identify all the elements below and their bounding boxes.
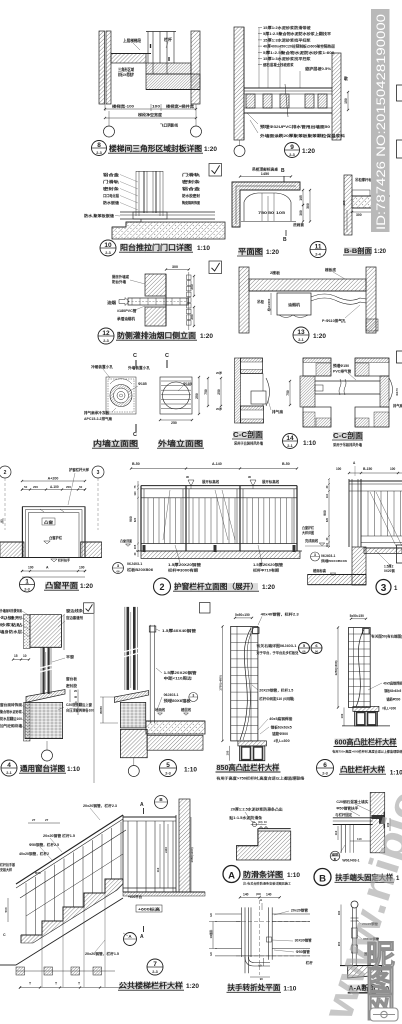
svg-text:冷暖装置小孔: 冷暖装置小孔 (91, 364, 114, 369)
svg-text:620: 620 (133, 517, 137, 522)
svg-text:C: C (133, 432, 137, 438)
svg-text:200: 200 (33, 485, 38, 489)
svg-text:Φ185: Φ185 (183, 382, 192, 386)
svg-text:Φ50钢管，栏杆2.5: Φ50钢管，栏杆2.5 (29, 842, 59, 847)
svg-text:吊柜: 吊柜 (257, 299, 265, 304)
svg-text:B-B剖面: B-B剖面 (344, 246, 372, 255)
svg-text:凸窗顶面: 凸窗顶面 (120, 538, 132, 543)
svg-text:2-1: 2-1 (287, 444, 293, 448)
svg-text:预埋B0X0B0X6: 预埋B0X0B0X6 (321, 558, 347, 563)
svg-text:10: 10 (104, 242, 112, 249)
svg-text:140: 140 (243, 893, 249, 897)
svg-text:1.5厚20X20钢管: 1.5厚20X20钢管 (164, 670, 198, 675)
svg-text:三角形区域: 三角形区域 (118, 67, 134, 72)
svg-text:7: 7 (153, 961, 157, 968)
svg-text:20厚: 20厚 (216, 407, 222, 411)
svg-text:110: 110 (326, 493, 329, 498)
watermark grey strip (371, 9, 390, 232)
panel 12 oil fume outlet side elevation (209, 261, 222, 274)
svg-text:B-50: B-50 (282, 462, 290, 466)
svg-text:A+200: A+200 (48, 477, 59, 481)
svg-text:阳台推拉门门口详图: 阳台推拉门门口详图 (120, 242, 193, 252)
svg-text:2楼板: 2楼板 (270, 270, 281, 275)
svg-text:2-3: 2-3 (152, 970, 158, 974)
panel 600 belly railing (349, 628, 371, 708)
svg-text:50: 50 (268, 211, 274, 215)
svg-text:中距<110周边: 中距<110周边 (164, 676, 193, 681)
svg-text:≥110: ≥110 (164, 847, 168, 853)
svg-text:3: 3 (381, 583, 387, 594)
svg-text:11: 11 (315, 243, 322, 250)
svg-text:6: 6 (323, 762, 327, 769)
panel B handrail end fixing (370, 792, 385, 852)
svg-text:预埋Φ150: 预埋Φ150 (333, 363, 349, 368)
svg-text:2-3: 2-3 (289, 153, 295, 157)
svg-text:栏杆Φ710有期: 栏杆Φ710有期 (253, 568, 280, 573)
svg-text:1:20: 1:20 (200, 333, 213, 340)
svg-text:3: 3 (314, 553, 316, 557)
svg-text:100: 100 (340, 713, 344, 718)
svg-text:1:20: 1:20 (313, 333, 326, 340)
svg-text:栏杆中间距110 (0间隔): 栏杆中间距110 (0间隔) (259, 696, 294, 701)
svg-text:3: 3 (192, 693, 194, 697)
svg-text:楼面标高: 楼面标高 (313, 568, 327, 573)
svg-text:APC15-2-2排气扇: APC15-2-2排气扇 (84, 416, 113, 421)
svg-text:铝合金: 铝合金 (103, 172, 119, 177)
svg-text:9: 9 (290, 144, 294, 151)
svg-text:110: 110 (326, 542, 329, 547)
svg-text:1:10: 1:10 (184, 767, 197, 774)
svg-text:防滑条详图: 防滑条详图 (243, 870, 283, 879)
svg-text:PVC排气管: PVC排气管 (333, 369, 352, 374)
svg-text:通用窗台详图: 通用窗台详图 (20, 763, 65, 773)
svg-text:柜H≈2200: 柜H≈2200 (267, 298, 271, 312)
svg-text:5x50=150: 5x50=150 (350, 614, 364, 618)
svg-text:采用于且装排风外墙: 采用于且装排风外墙 (233, 441, 264, 446)
panel 13 hood section (239, 267, 249, 333)
right edge callout boxes (397, 85, 402, 101)
svg-text:厨房外墙或: 厨房外墙或 (112, 274, 129, 279)
svg-text:护窗栏杆大样: 护窗栏杆大样 (69, 467, 89, 472)
svg-text:Φ50钢管扶手: Φ50钢管扶手 (336, 806, 359, 811)
panel 3 railing at corner (349, 472, 402, 474)
svg-text:对于平台，于平台走步栏板处: 对于平台，于平台走步栏板处 (256, 650, 299, 655)
svg-text:地面线: 地面线 (155, 707, 166, 712)
svg-text:铝合金: 铝合金 (182, 186, 201, 191)
svg-text:防水,聚苯板嵌缝: 防水,聚苯板嵌缝 (84, 213, 114, 218)
panel 2 window guard elevation (131, 468, 297, 470)
svg-text:160: 160 (337, 910, 341, 915)
svg-text:B: B (283, 237, 287, 243)
svg-text:250: 250 (171, 421, 177, 425)
svg-text:100: 100 (390, 467, 396, 471)
svg-text:凸窗: 凸窗 (44, 520, 54, 525)
svg-text:900: 900 (323, 510, 327, 516)
svg-text:110: 110 (156, 867, 160, 872)
panel 5 sill w/ railing section (200, 603, 211, 614)
svg-text:歇: 歇 (343, 76, 348, 81)
svg-text:1:20: 1:20 (80, 583, 93, 590)
svg-text:ID:787426 NO:20150428190000: ID:787426 NO:20150428190000 (376, 14, 388, 230)
svg-text:750: 750 (286, 390, 290, 396)
svg-text:飞口阴影线: 飞口阴影线 (160, 123, 178, 128)
svg-text:(40): (40) (256, 892, 261, 896)
svg-text:栏杆扶手基: 栏杆扶手基 (0, 862, 16, 867)
svg-text:1:10: 1:10 (197, 245, 210, 252)
svg-text:A: A (140, 934, 144, 940)
svg-text:165: 165 (342, 200, 346, 205)
svg-text:有关图50(有右端图): 有关图50(有右端图) (371, 634, 402, 639)
panel 9 floor/wall section (234, 27, 244, 140)
svg-text:R30: R30 (35, 871, 41, 875)
svg-text:2: 2 (4, 470, 7, 476)
svg-text:密封条: 密封条 (102, 186, 120, 191)
svg-text:凸肚栏杆大样: 凸肚栏杆大样 (340, 765, 386, 774)
svg-text:有用于高度>750栏杆时,高度合适以上都监理联络: 有用于高度>750栏杆时,高度合适以上都监理联络 (216, 776, 305, 781)
svg-text:栏杆: 栏杆 (164, 36, 173, 43)
svg-text:凸窗护栏: 凸窗护栏 (49, 535, 63, 540)
svg-text:20x20钢管，栏杆2.3: 20x20钢管，栏杆2.3 (83, 803, 117, 808)
svg-text:油烟: 油烟 (107, 300, 116, 305)
svg-text:90: 90 (259, 964, 263, 968)
svg-text:吊柜顶部标高桌: 吊柜顶部标高桌 (252, 167, 279, 172)
svg-text:1/2: 1/2 (209, 952, 213, 956)
svg-text:凸窗护栏: 凸窗护栏 (302, 525, 315, 530)
svg-text:20X20钢管，栏杆1.5: 20X20钢管，栏杆1.5 (259, 688, 293, 693)
svg-text:展开标高线: 展开标高线 (201, 479, 220, 484)
svg-text:#扎L=300: #扎L=300 (382, 706, 396, 711)
svg-text:40x20钢管，栏杆2: 40x20钢管，栏杆2 (19, 851, 49, 856)
svg-text:1: 1 (25, 578, 29, 585)
svg-text:80: 80 (0, 519, 4, 523)
svg-text:105: 105 (133, 544, 137, 549)
svg-text:楼梯宽+梯井宽: 楼梯宽+梯井宽 (166, 104, 194, 109)
svg-text:165: 165 (299, 195, 303, 201)
svg-text:官边塞缝剂: 官边塞缝剂 (66, 615, 84, 620)
svg-text:500: 500 (4, 907, 8, 912)
svg-text:1.5厚40X40钢管: 1.5厚40X40钢管 (162, 628, 197, 633)
panel 7 public stair railing (16, 815, 123, 884)
svg-text:40x5扁钢焊接: 40x5扁钢焊接 (383, 681, 402, 686)
svg-text:750: 750 (258, 211, 267, 215)
svg-text:1:20: 1:20 (302, 148, 315, 155)
svg-text:细石混凝土找坡底浆: 细石混凝土找坡底浆 (262, 62, 294, 67)
svg-text:100: 100 (79, 566, 85, 570)
svg-text:梯段净空宽度: 梯段净空宽度 (138, 112, 162, 117)
panel 4 universal window sill (84, 603, 95, 614)
svg-text:平面图: 平面图 (238, 247, 264, 256)
svg-text:1:20: 1:20 (204, 146, 217, 153)
svg-text:20厚: 20厚 (216, 371, 222, 375)
svg-text:110: 110 (334, 830, 338, 835)
svg-text:13: 13 (297, 329, 305, 336)
svg-text:1:10: 1:10 (287, 872, 300, 879)
svg-text:1:10: 1:10 (67, 766, 80, 773)
svg-text:外墙装置小孔: 外墙装置小孔 (128, 365, 151, 370)
svg-text:2: 2 (159, 582, 164, 592)
svg-text:5厚1:2.5聚合物水泥防水砂浆上翻找平: 5厚1:2.5聚合物水泥防水砂浆上翻找平 (263, 31, 332, 36)
svg-text:06J403-1: 06J403-1 (127, 562, 142, 566)
svg-text:1750(>850): 1750(>850) (219, 675, 223, 690)
svg-text:90: 90 (248, 475, 252, 479)
svg-text:楼层线: 楼层线 (181, 707, 192, 712)
svg-text:与栏杆固定: 与栏杆固定 (335, 812, 353, 817)
svg-text:1:20: 1:20 (186, 983, 199, 990)
svg-text:20厚1:2.5水泥砂浆防滑条凸出: 20厚1:2.5水泥砂浆防滑条凸出 (231, 807, 284, 812)
svg-text:1.5厚20X20钢管: 1.5厚20X20钢管 (253, 562, 284, 567)
svg-text:20x20钢管: 20x20钢管 (291, 908, 309, 913)
svg-text:油烟机: 油烟机 (288, 302, 300, 307)
svg-text:(10): (10) (258, 821, 263, 824)
diagonal watermark www.nipic.com (313, 679, 402, 1024)
svg-text:2-3: 2-3 (24, 587, 30, 591)
svg-text:内墙立面图: 内墙立面图 (93, 439, 138, 448)
svg-text:排气扇: 排气扇 (272, 409, 284, 414)
svg-text:1/2: 1/2 (209, 913, 213, 917)
svg-text:5x50=150: 5x50=150 (235, 613, 250, 617)
svg-text:Φ170: Φ170 (395, 388, 399, 396)
svg-text:06: 06 (116, 570, 120, 574)
svg-text:C20现浇翻边上窗: C20现浇翻边上窗 (66, 702, 93, 707)
svg-text:排气扇: 排气扇 (393, 403, 402, 408)
hatched floor (112, 222, 225, 239)
svg-text:墙身防水层: 墙身防水层 (0, 629, 23, 634)
svg-text:密封条: 密封条 (180, 179, 200, 184)
svg-text:06J403-1: 06J403-1 (164, 693, 179, 697)
svg-text:50: 50 (24, 485, 28, 489)
svg-text:10: 10 (23, 654, 27, 658)
svg-text:C: C (165, 353, 169, 359)
svg-text:1/2梯井: 1/2梯井 (209, 929, 213, 938)
svg-text:105: 105 (276, 211, 285, 215)
svg-text:15厚1:3水泥砂浆找平扫浆: 15厚1:3水泥砂浆找平扫浆 (263, 37, 311, 42)
svg-text:4: 4 (7, 762, 11, 769)
svg-text:1250(>600): 1250(>600) (334, 661, 338, 676)
svg-text:3: 3 (97, 470, 100, 476)
svg-text:A: A (228, 871, 235, 882)
panel 10 balcony sliding door sill (209, 164, 222, 177)
svg-text:台压顶窗两侧各100: 台压顶窗两侧各100 (66, 708, 94, 713)
svg-text:300: 300 (172, 265, 178, 269)
svg-text:锚筋: 锚筋 (332, 852, 340, 856)
svg-text:15厚1:3水泥砂浆找平扫浆: 15厚1:3水泥砂浆找平扫浆 (263, 56, 311, 61)
svg-text:栏杆Φ3000有期: 栏杆Φ3000有期 (168, 568, 199, 573)
svg-text:250: 250 (195, 393, 199, 399)
svg-text:50: 50 (79, 485, 83, 489)
svg-text:避护层坡0.5%: 避护层坡0.5% (304, 66, 332, 71)
svg-text:阳台外墙: 阳台外墙 (112, 279, 126, 284)
svg-text:1:20: 1:20 (374, 249, 387, 255)
svg-text:防侧灌排油烟口侧立面: 防侧灌排油烟口侧立面 (117, 331, 196, 340)
svg-text:40x40钢管，栏杆2.3: 40x40钢管，栏杆2.3 (261, 612, 299, 617)
svg-text:150: 150 (344, 98, 348, 104)
panel 11 hood plan (232, 182, 300, 227)
svg-text:窗台面砖饰面: 窗台面砖饰面 (0, 702, 23, 707)
svg-text:27: 27 (32, 818, 36, 822)
svg-text:0X20钢: 0X20钢 (384, 568, 395, 573)
svg-text:2-3: 2-3 (322, 771, 328, 775)
svg-text:110: 110 (133, 491, 137, 496)
svg-text:+600标高: +600标高 (138, 907, 161, 912)
panel 850 belly railing (231, 626, 258, 741)
svg-text:#扎L=300: #扎L=300 (274, 738, 290, 743)
svg-text:2-1: 2-1 (298, 338, 304, 342)
svg-text:5厚1:2.5聚合物水泥防水砂浆1:600: 5厚1:2.5聚合物水泥防水砂浆1:600 (263, 50, 334, 55)
svg-text:完成面线: 完成面线 (305, 538, 319, 543)
svg-text:防水嵌缝: 防水嵌缝 (103, 200, 119, 205)
svg-text:300: 300 (306, 203, 310, 209)
svg-text:900: 900 (129, 516, 133, 522)
bottom-right nipic logo (366, 940, 395, 1024)
A-A section (351, 901, 358, 908)
C-C section 1:10 (235, 358, 241, 423)
svg-text:防水胶密封: 防水胶密封 (182, 193, 200, 198)
B-B section (344, 175, 352, 235)
svg-text:300: 300 (356, 213, 362, 217)
svg-text:110: 110 (357, 837, 362, 841)
svg-text:锚筋Φ500: 锚筋Φ500 (386, 697, 400, 702)
svg-text:100: 100 (226, 750, 230, 755)
svg-text:上层梯梯段: 上层梯梯段 (123, 37, 142, 44)
panel A anti-slip strip (236, 831, 290, 860)
svg-text:大样详图: 大样详图 (302, 530, 314, 535)
svg-text:注:有关台阶防滑条安装详图见施工: 注:有关台阶防滑条安装详图见施工 (243, 881, 291, 886)
note bubble 3 small (113, 563, 124, 574)
svg-text:C: C (3, 933, 6, 937)
svg-text:Φ50钢管: Φ50钢管 (296, 949, 311, 954)
handrail turn plan (240, 896, 280, 898)
svg-text:公共楼梯栏杆大样: 公共楼梯栏杆大样 (119, 981, 184, 990)
svg-text:护窗栏杆立面图（展开）: 护窗栏杆立面图（展开） (174, 582, 258, 591)
svg-text:窗边线条: 窗边线条 (66, 608, 84, 613)
svg-text:砂浆粘贴: 砂浆粘贴 (0, 622, 23, 627)
svg-text:140: 140 (266, 893, 272, 897)
svg-text:1050(1100): 1050(1100) (190, 847, 194, 862)
svg-text:40厚400x450C20砼预制板@600架空隔热层: 40厚400x450C20砼预制板@600架空隔热层 (263, 44, 336, 49)
svg-text:2-3: 2-3 (103, 339, 109, 343)
svg-text:200: 200 (66, 485, 71, 489)
svg-text:聚合物水泥砂浆: 聚合物水泥砂浆 (0, 709, 23, 714)
C-C section wide (300, 376, 315, 407)
svg-text:外墙立面图: 外墙立面图 (157, 439, 203, 448)
svg-text:200: 200 (190, 314, 194, 320)
svg-text:锚筋Φ500: 锚筋Φ500 (272, 731, 288, 736)
svg-text:5: 5 (166, 762, 170, 769)
svg-text:B-150: B-150 (363, 467, 372, 471)
svg-text:贴1:1.5水泥防滑条: 贴1:1.5水泥防滑条 (229, 815, 263, 820)
svg-text:850高凸肚栏杆大样: 850高凸肚栏杆大样 (216, 763, 280, 772)
svg-text:2-4: 2-4 (315, 253, 321, 257)
svg-text:2-3: 2-3 (96, 151, 102, 155)
svg-text:展开标高线: 展开标高线 (261, 479, 280, 484)
svg-text:06J403-1: 06J403-1 (321, 554, 335, 558)
svg-text:90: 90 (260, 977, 264, 981)
svg-text:外墙面涂刷20厚聚苯板聚苯颗粒保温浆料: 外墙面涂刷20厚聚苯板聚苯颗粒保温浆料 (259, 133, 346, 138)
svg-text:有用750>高度>600栏杆时,高度合适以上都监理联络: 有用750>高度>600栏杆时,高度合适以上都监理联络 (332, 749, 402, 754)
svg-text:扶手转折处平面: 扶手转折处平面 (227, 983, 281, 992)
svg-text:栏板B20XB06: 栏板B20XB06 (127, 567, 153, 572)
svg-text:口口电化铝: 口口电化铝 (103, 193, 119, 198)
svg-text:W450: W450 (99, 706, 103, 714)
svg-text:预埋Φ32UPVC排水管甩出墙面50: 预埋Φ32UPVC排水管甩出墙面50 (260, 124, 330, 129)
svg-text:C-C剖面: C-C剖面 (233, 430, 263, 439)
svg-text:20: 20 (74, 689, 78, 693)
svg-text:楼板底: 楼板底 (325, 267, 337, 272)
svg-text:100: 100 (336, 467, 342, 471)
svg-text:Φ185: Φ185 (138, 382, 147, 386)
svg-text:20x20钢管，栏杆1.5: 20x20钢管，栏杆1.5 (85, 951, 119, 956)
svg-text:250: 250 (217, 389, 221, 395)
svg-text:620: 620 (326, 517, 329, 522)
svg-text:1.5厚2: 1.5厚2 (384, 564, 394, 569)
svg-text:B: B (281, 168, 285, 174)
svg-text:采用于吊装排风外墙: 采用于吊装排风外墙 (332, 442, 363, 447)
svg-text:40: 40 (74, 695, 78, 699)
svg-text:14: 14 (286, 435, 294, 442)
svg-text:300: 300 (299, 210, 303, 216)
svg-text:1:10: 1:10 (283, 986, 296, 993)
svg-text:陶瓷锦砖饰面: 陶瓷锦砖饰面 (182, 200, 200, 205)
svg-text:200: 200 (190, 284, 194, 290)
svg-text:预埋80X6锚板: 预埋80X6锚板 (164, 698, 192, 703)
svg-text:600高凸肚栏杆大样: 600高凸肚栏杆大样 (335, 738, 398, 747)
svg-text:A-140: A-140 (212, 462, 222, 466)
svg-text:15厚1:2水泥砂浆防滑带坡: 15厚1:2水泥砂浆防滑带坡 (263, 25, 311, 30)
svg-text:楼梯间三角形区域封板详图: 楼梯间三角形区域封板详图 (109, 143, 203, 153)
svg-text:100: 100 (28, 566, 34, 570)
svg-text:A-100: A-100 (50, 485, 59, 489)
svg-text:100: 100 (152, 105, 160, 109)
svg-text:钢板63x63x5: 钢板63x63x5 (271, 725, 292, 730)
svg-text:洗碗套: 洗碗套 (293, 222, 305, 227)
svg-text:B-50: B-50 (132, 462, 140, 466)
svg-text:A: A (140, 802, 144, 808)
svg-text:90: 90 (186, 475, 190, 479)
svg-text:加气砼砌块墙: 加气砼砌块墙 (0, 723, 23, 728)
svg-text:2-3: 2-3 (165, 771, 171, 775)
svg-text:C: C (133, 353, 137, 359)
svg-text:30X30钢管: 30X30钢管 (295, 938, 313, 943)
svg-text:1:20: 1:20 (262, 584, 275, 591)
svg-text:15: 15 (14, 654, 18, 658)
svg-text:密封胶: 密封胶 (66, 683, 78, 688)
svg-text:凸窗平面: 凸窗平面 (45, 580, 79, 590)
svg-text:40x5扁钢焊接: 40x5扁钢焊接 (269, 716, 293, 721)
svg-text:承插油烟机: 承插油烟机 (117, 316, 135, 321)
svg-text:P:Φ110排气孔: P:Φ110排气孔 (322, 318, 346, 323)
svg-text:B: B (319, 874, 326, 885)
svg-text:防水层翻边100: 防水层翻边100 (0, 716, 22, 721)
svg-text:安装大样: 安装大样 (0, 867, 13, 872)
svg-text:楼梯宽-100: 楼梯宽-100 (112, 104, 134, 109)
svg-text:平窗: 平窗 (66, 654, 75, 659)
svg-text:8: 8 (97, 142, 101, 149)
panel 1 bay window plan (0, 466, 11, 478)
svg-text:有关右端详图06J403-1: 有关右端详图06J403-1 (256, 643, 296, 648)
svg-text:勾缝剂: 勾缝剂 (0, 615, 24, 620)
svg-text:C-C剖面: C-C剖面 (333, 431, 363, 440)
svg-text:1.5厚20X20钢管: 1.5厚20X20钢管 (168, 562, 202, 567)
svg-text:门滑轨: 门滑轨 (182, 172, 201, 177)
svg-text:27: 27 (45, 818, 49, 822)
svg-text:#180PVC管: #180PVC管 (117, 308, 137, 313)
svg-text:1:10: 1:10 (303, 440, 316, 447)
svg-text:2-1: 2-1 (6, 771, 12, 775)
svg-text:C20细石混凝土填实: C20细石混凝土填实 (336, 799, 369, 804)
svg-text:栏杆扶手: 栏杆扶手 (58, 558, 71, 563)
panel 8 stair triangle detail (99, 31, 105, 104)
svg-text:12: 12 (102, 330, 110, 337)
